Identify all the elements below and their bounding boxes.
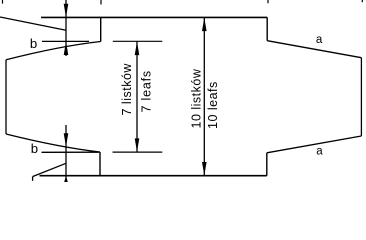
- wire bottom-left b extension line: [42, 151, 100, 153]
- wire left bottom step vertical: [99, 152, 101, 176]
- arrowhead 10-dim up: [202, 18, 207, 32]
- wire top-left taper slope P: [6, 42, 101, 60]
- svg-text:a: a: [316, 34, 323, 46]
- wire left tip vertical: [5, 60, 7, 134]
- wire right bottom step vertical: [266, 153, 268, 176]
- svg-text:b: b: [30, 36, 37, 51]
- svg-text:10 listków: 10 listków: [190, 68, 204, 128]
- arrowhead b-bottom down: [64, 133, 69, 147]
- wire top edge tick at x=362: [361, 0, 363, 2]
- svg-text:b: b: [31, 141, 38, 156]
- arrowhead 7-dim down: [135, 138, 140, 152]
- arrowhead 10-dim down: [202, 162, 207, 176]
- wire dimension line 10 leafs at x=204: [203, 18, 205, 176]
- wire top-right taper slope labelled a: [267, 41, 361, 58]
- arrowhead b-top up: [64, 42, 69, 56]
- arrowhead 7-dim up: [135, 42, 140, 56]
- wire dimension line 7 leafs at x=137: [136, 42, 138, 153]
- wire top-left b extension line: [42, 40, 89, 42]
- arrowhead b-top down: [64, 4, 69, 17]
- wire top edge tick at x=101: [100, 0, 102, 5]
- wire top edge tick at x=2.5: [2, 0, 4, 4]
- wire bottom-right taper slope labelled a: [267, 136, 362, 153]
- wire bottom-left leaf slope S1': [33, 163, 66, 176]
- svg-text:a: a: [316, 146, 323, 158]
- wire top edge with left extension: [41, 16, 267, 18]
- wire dimension line b top at x=66: [65, 0, 67, 56]
- wire bottom-left taper slope P': [6, 134, 100, 152]
- wire left step vertical: [100, 17, 102, 41]
- wire 7-dim top extension line: [113, 40, 163, 42]
- svg-text:7 leafs: 7 leafs: [140, 70, 154, 112]
- svg-text:7 listków: 7 listków: [120, 63, 134, 116]
- wire 7-dim bottom extension line: [113, 151, 163, 153]
- wire dimension line b bottom at x=66: [65, 125, 67, 182]
- wire bottom-left tick: [32, 177, 34, 181]
- wire right step vertical: [266, 17, 268, 40]
- wire right tip vertical: [360, 58, 362, 136]
- arrowhead b-bottom up (clipped): [63, 176, 68, 185]
- wire bottom edge with left extension: [40, 175, 267, 177]
- wire top-left leaf slope S1: [0, 17, 66, 30]
- wire top edge tick at x=268: [267, 0, 269, 3]
- svg-text:10 leafs: 10 leafs: [206, 81, 220, 129]
